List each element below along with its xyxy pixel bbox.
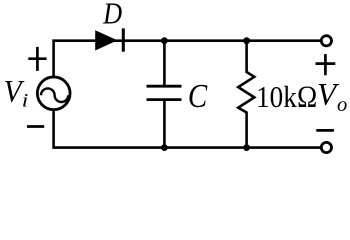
svg-text:o: o [337,94,347,116]
svg-text:i: i [22,91,29,112]
svg-text:10kΩ: 10kΩ [256,79,318,114]
svg-text:C: C [188,78,208,115]
svg-text:D: D [102,0,122,31]
